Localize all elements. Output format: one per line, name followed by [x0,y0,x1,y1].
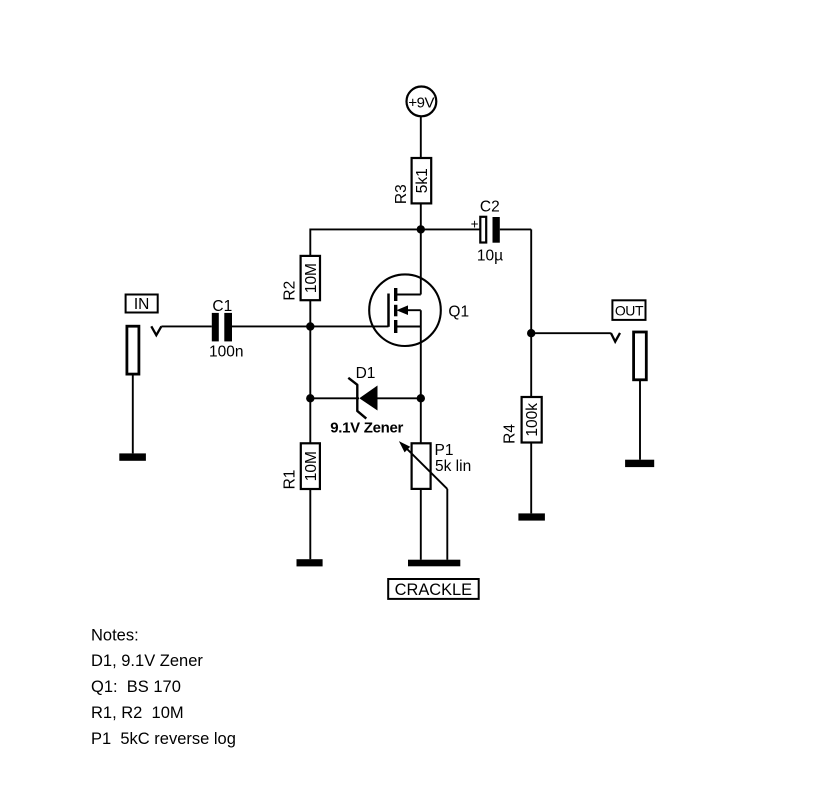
wire R3 to top rail [420,203,422,229]
svg-text:100k: 100k [524,403,541,437]
wire R4 to ground [530,443,532,514]
node CRACKLE label box [388,579,479,599]
wire gate junction down to zener junction [309,327,311,399]
svg-text:Q1: BS 170: Q1: BS 170 [91,678,181,696]
wire C1 to gate [232,325,389,327]
wire right vertical [530,229,532,397]
svg-text:R2: R2 [282,281,299,301]
OUT jack sleeve [634,332,647,380]
svg-text:R1, R2 10M: R1, R2 10M [91,704,184,722]
ground R4 [518,513,545,520]
svg-text:C1: C1 [212,298,232,315]
resistor R2 [282,256,320,301]
wire zener junction to R1 [309,398,311,443]
svg-text:10M: 10M [303,451,320,481]
wire OUT jack to ground [639,380,641,460]
transistor Q1 [369,274,441,398]
svg-text:D1, 9.1V Zener: D1, 9.1V Zener [91,652,203,670]
svg-text:IN: IN [134,296,150,313]
svg-text:5k lin: 5k lin [435,458,471,475]
svg-text:Q1: Q1 [448,303,469,320]
input terminal arrow [151,326,161,335]
svg-text:100n: 100n [209,344,243,361]
IN label box [126,295,158,314]
notes text [91,626,236,748]
svg-text:D1: D1 [356,365,376,382]
capacitor C2 [471,199,504,265]
wire input to C1 [161,325,211,327]
wire C2 to right vertical [500,228,531,230]
output terminal arrow [611,333,620,342]
svg-text:CRACKLE: CRACKLE [395,581,472,599]
wire output line [531,332,611,334]
resistor R1 [281,443,320,489]
IN jack sleeve [127,326,139,374]
svg-text:+9V: +9V [408,95,434,112]
svg-text:OUT: OUT [615,303,644,319]
wire P1 to ground [420,489,422,560]
node junction top rail / drain [417,225,425,233]
wire +9V to R3 [420,116,422,158]
wire source junction to P1 [420,398,422,443]
svg-text:P1 5kC reverse log: P1 5kC reverse log [91,730,236,748]
potentiometer P1 [399,441,447,560]
svg-text:5k1: 5k1 [414,168,431,193]
svg-text:10µ: 10µ [477,248,503,265]
node junction zener left [306,394,314,402]
wire rail corner to R2 [309,229,311,256]
resistor R4 [502,397,542,444]
svg-text:R4: R4 [502,424,519,444]
ground IN [119,453,146,460]
ground OUT [625,460,654,467]
svg-text:R3: R3 [393,184,410,204]
node junction source/zener/P1 [417,394,425,402]
resistor R3 [393,158,431,204]
ground P1 [408,560,460,567]
svg-text:10M: 10M [303,263,320,293]
svg-text:R1: R1 [281,470,298,490]
svg-text:C2: C2 [480,199,500,216]
power supply +9V [407,87,437,117]
OUT label box [612,300,645,320]
svg-text:Notes:: Notes: [91,626,139,644]
svg-text:P1: P1 [435,442,454,459]
wire R1 to ground [309,489,311,559]
node junction gate line [306,322,314,330]
node junction output [527,329,535,337]
wire R2 to input line [309,300,311,326]
wire top rail [310,228,480,230]
svg-text:+: + [471,217,479,232]
svg-text:9.1V Zener: 9.1V Zener [330,419,403,436]
zener diode D1 [310,378,421,419]
wire drain [420,229,422,294]
wire IN jack to ground [132,374,134,453]
ground R1 [297,559,323,566]
capacitor C1 [209,298,243,361]
